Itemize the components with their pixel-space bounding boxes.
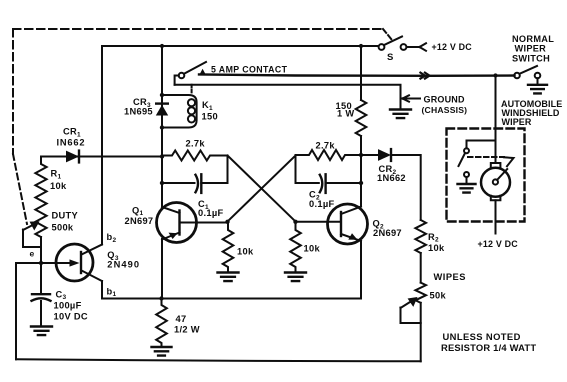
arrow to ground label (403, 95, 421, 101)
svg-text:e: e (30, 249, 35, 259)
switch S contact (401, 44, 407, 50)
svg-text:150: 150 (202, 111, 218, 121)
ground below NWS (528, 85, 547, 94)
relay K1 coil loops (188, 99, 195, 106)
wire Q2 collector column (360, 155, 362, 207)
switch S pole (379, 44, 385, 50)
resistor R2 10k (415, 220, 426, 253)
arrow chevrons on contact line (420, 72, 430, 79)
pot DUTY wiper arrow (23, 222, 38, 230)
svg-text:2N490: 2N490 (107, 259, 140, 269)
capacitor C1 left plate (curved) (196, 175, 199, 193)
wire dashed relay actuation link (191, 85, 193, 94)
node CR2 junction (359, 153, 363, 157)
wire 5-amp contact line (199, 75, 515, 76)
node Q1 base junction (225, 220, 229, 224)
motor top terminal (491, 163, 501, 168)
ground below C3 (31, 327, 52, 336)
capacitor C3 bottom plate (curved) (32, 298, 51, 301)
wire 50k wiper return (401, 308, 421, 324)
wire 150-ohm to CR2 node (360, 136, 362, 155)
wire NWS contact to ground (537, 78, 539, 84)
wire CR2 line (361, 154, 378, 156)
ground below 47-ohm (152, 347, 172, 356)
wire Q1 collector / CR3 column (161, 46, 163, 207)
svg-text:UNLESS NOTED: UNLESS NOTED (443, 331, 521, 342)
wire dashed cam link (468, 156, 504, 158)
wire b1 to emitter rail (102, 281, 361, 299)
wire C2 left (296, 182, 319, 184)
transistor Q3 b2 lead (82, 245, 103, 255)
svg-text:500k: 500k (52, 222, 74, 232)
node top rail / CR3 branch (160, 44, 164, 48)
resistor 2.7k right (296, 150, 362, 160)
transistor Q2 base bar (340, 212, 342, 236)
svg-text:0.1µF: 0.1µF (309, 199, 334, 209)
relay contact stationary arrow (199, 69, 206, 76)
wire left box edge (b2 feed) (101, 46, 103, 245)
svg-text:10k: 10k (428, 243, 445, 253)
ground (chassis) symbol (390, 110, 411, 119)
svg-text:1/2 W: 1/2 W (174, 325, 200, 335)
svg-text:RESISTOR 1/4 WATT: RESISTOR 1/4 WATT (441, 342, 536, 353)
diode CR1 triangle (66, 151, 79, 163)
wire left edge to bottom rail (15, 263, 17, 359)
node CR1 / 2.7k / collector (160, 154, 164, 158)
capacitor C1 right plate (200, 174, 202, 193)
node Q2 base junction (293, 220, 297, 224)
wire from S to +12V (407, 46, 420, 48)
switch motor contact upper (464, 148, 469, 153)
transistor Q1 collector lead (162, 207, 180, 213)
svg-text:S: S (387, 52, 394, 63)
svg-text:10k: 10k (304, 244, 321, 254)
ground below right 10k (285, 273, 306, 282)
wire C3 to ground (40, 301, 42, 326)
wire coupling connector right (295, 155, 297, 183)
svg-text:10k: 10k (237, 247, 254, 257)
relay contact pole circle (179, 73, 185, 79)
transistor Q3 b1 lead (82, 271, 103, 282)
svg-text:0.1µF: 0.1µF (198, 208, 223, 218)
wire CR1 line (41, 156, 162, 158)
svg-text:DUTY: DUTY (52, 210, 79, 220)
resistor 150 1W (356, 100, 367, 136)
wire dashed link to DUTY pot (13, 154, 27, 224)
motor crank arm (497, 169, 507, 180)
transistor Q3 base bar (80, 252, 82, 273)
wire Q3 emitter line (16, 262, 57, 264)
svg-text:+12 V DC: +12 V DC (478, 239, 519, 249)
svg-text:WIPES: WIPES (434, 272, 466, 282)
resistor 10k right (290, 222, 301, 272)
switch NWS contact (535, 73, 541, 79)
node emitter rail / 47-ohm (159, 296, 163, 300)
arrow fork +12V top (420, 43, 427, 51)
svg-text:47: 47 (176, 314, 187, 324)
resistor 2.7k left (162, 151, 228, 161)
wire R2 to 50k (420, 253, 422, 283)
svg-text:1N662: 1N662 (377, 173, 406, 183)
diode CR2 triangle (378, 149, 391, 161)
svg-text:50k: 50k (430, 291, 447, 301)
wire cross diagonal left-to-Q2base (228, 156, 296, 222)
transistor Q3 emitter arrow (57, 262, 70, 264)
svg-text:10k: 10k (50, 181, 67, 191)
wire chassis ground line (175, 85, 401, 109)
wire Q2 emitter down (360, 241, 362, 299)
transistor Q2 base lead (296, 222, 342, 224)
transistor Q1 base bar (178, 211, 180, 235)
diode CR3 bar (156, 102, 168, 104)
svg-text:100µF: 100µF (54, 301, 82, 311)
diode CR1 bar (78, 151, 80, 163)
resistor R1 10k + pot DUTY 500k body (35, 157, 46, 238)
svg-text:SWITCH: SWITCH (512, 54, 550, 64)
svg-text:(CHASSIS): (CHASSIS) (422, 105, 468, 115)
wire wiper feed into box (495, 76, 497, 164)
ground below left 10k (218, 273, 239, 282)
svg-text:IN662: IN662 (57, 138, 86, 148)
switch NWS pole (514, 73, 520, 79)
node CR3 top (160, 93, 164, 97)
wire dashed enclosure top (13, 28, 383, 30)
wire top +12V rail (102, 45, 379, 47)
svg-text:2N697: 2N697 (373, 228, 402, 238)
node C1 tap (160, 181, 164, 185)
capacitor C2 right plate (324, 174, 326, 193)
wire DUTY to emitter node (40, 237, 42, 294)
svg-text:WIPER: WIPER (515, 44, 547, 54)
svg-text:2N697: 2N697 (125, 216, 154, 226)
transistor Q1 2N697 circle (157, 203, 197, 243)
motor M circle (481, 168, 510, 197)
switch motor contact lower (464, 172, 469, 177)
diode CR3 triangle (156, 105, 168, 116)
wire C1 to coupling node (201, 182, 227, 184)
pot WIPES 50k body (415, 283, 426, 303)
motor shaft circle (493, 179, 498, 184)
node C2 junction (359, 181, 363, 185)
node CR3 bottom (160, 125, 164, 129)
wire C2 right (326, 182, 361, 184)
svg-text:WIPER: WIPER (502, 117, 532, 127)
pot 50k wiper arrow (401, 298, 416, 308)
svg-text:10V DC: 10V DC (54, 312, 88, 322)
svg-text:2.7k: 2.7k (316, 141, 336, 151)
wire Q1 emitter down (161, 239, 163, 299)
transistor Q1 base lead (180, 222, 228, 224)
relay K1 coil bracket (162, 95, 197, 128)
svg-text:1 W: 1 W (337, 109, 354, 119)
wire branch to motor switch (467, 141, 496, 149)
wire dashed enclosure left (12, 29, 14, 154)
capacitor C3 top plate (32, 293, 50, 295)
transistor Q1 emitter lead (162, 233, 180, 240)
wire cam link arrow (504, 157, 514, 166)
wire coupling connector left (227, 156, 229, 184)
wire 150-ohm feed (360, 46, 362, 100)
svg-text:GROUND: GROUND (424, 94, 465, 104)
svg-text:2.7k: 2.7k (186, 138, 206, 148)
diode CR2 bar (390, 149, 392, 161)
switch NWS blade (520, 66, 538, 74)
switch S blade (384, 37, 402, 46)
wire DUTY wiper return (23, 230, 41, 248)
wire motor to +12V (495, 200, 497, 233)
wire contact pole to chassis-ground line (175, 76, 179, 85)
svg-text:NORMAL: NORMAL (512, 34, 554, 44)
transistor Q2 emitter lead (341, 234, 361, 241)
resistor 47 1/2W (156, 299, 167, 347)
transistor Q2 2N697 circle (328, 204, 368, 244)
node Q3 emitter junction (39, 261, 43, 265)
node contact line / wiper branch (493, 73, 497, 77)
ground inside wiper box (458, 184, 476, 193)
svg-text:+12 V DC: +12 V DC (432, 42, 473, 52)
transistor Q2 collector lead (341, 207, 361, 215)
wiper motor dashed box (447, 129, 525, 222)
relay contact blade (184, 62, 206, 74)
wire cross diagonal right-to-Q1base (228, 156, 296, 222)
wire dashed enclosure link to switch S (383, 29, 392, 40)
resistor 10k left (223, 222, 234, 272)
svg-text:1N695: 1N695 (124, 106, 153, 116)
node top rail / 150-ohm branch (359, 44, 363, 48)
wire 50k to bottom rail (420, 303, 422, 362)
wire CR2 to R2 (391, 155, 421, 220)
transistor Q3 2N490 circle (56, 244, 93, 281)
svg-text:5 AMP CONTACT: 5 AMP CONTACT (211, 65, 288, 75)
capacitor C2 left plate (curved) (320, 175, 323, 193)
wire bottom rail (16, 359, 421, 361)
wire motor switch to ground (466, 177, 468, 183)
switch motor blade (459, 154, 465, 167)
motor bottom terminal (491, 196, 501, 201)
wire C1 tap (162, 182, 195, 184)
